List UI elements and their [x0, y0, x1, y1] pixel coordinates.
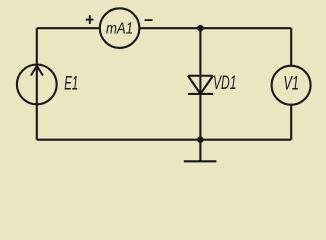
- svg-text:E1: E1: [64, 72, 78, 94]
- svg-text:mA1: mA1: [106, 20, 133, 37]
- diode VD1: [188, 76, 213, 94]
- node junction bottom: [197, 136, 204, 143]
- ammeter mA1: [100, 8, 140, 48]
- voltmeter V1: [272, 66, 311, 105]
- svg-text:V1: V1: [283, 73, 299, 95]
- wire right: [290, 28, 292, 140]
- polarity minus: [145, 19, 153, 21]
- wire bottom: [37, 139, 291, 141]
- wire diode branch: [199, 28, 201, 140]
- wire top: [37, 27, 291, 29]
- label E1: [64, 72, 78, 94]
- svg-text:VD1: VD1: [213, 72, 237, 94]
- current source E1: [17, 64, 57, 104]
- wire left: [36, 28, 38, 140]
- label VD1: [213, 72, 237, 94]
- ground: [184, 140, 217, 162]
- polarity plus: [86, 15, 94, 24]
- node junction top: [197, 25, 204, 32]
